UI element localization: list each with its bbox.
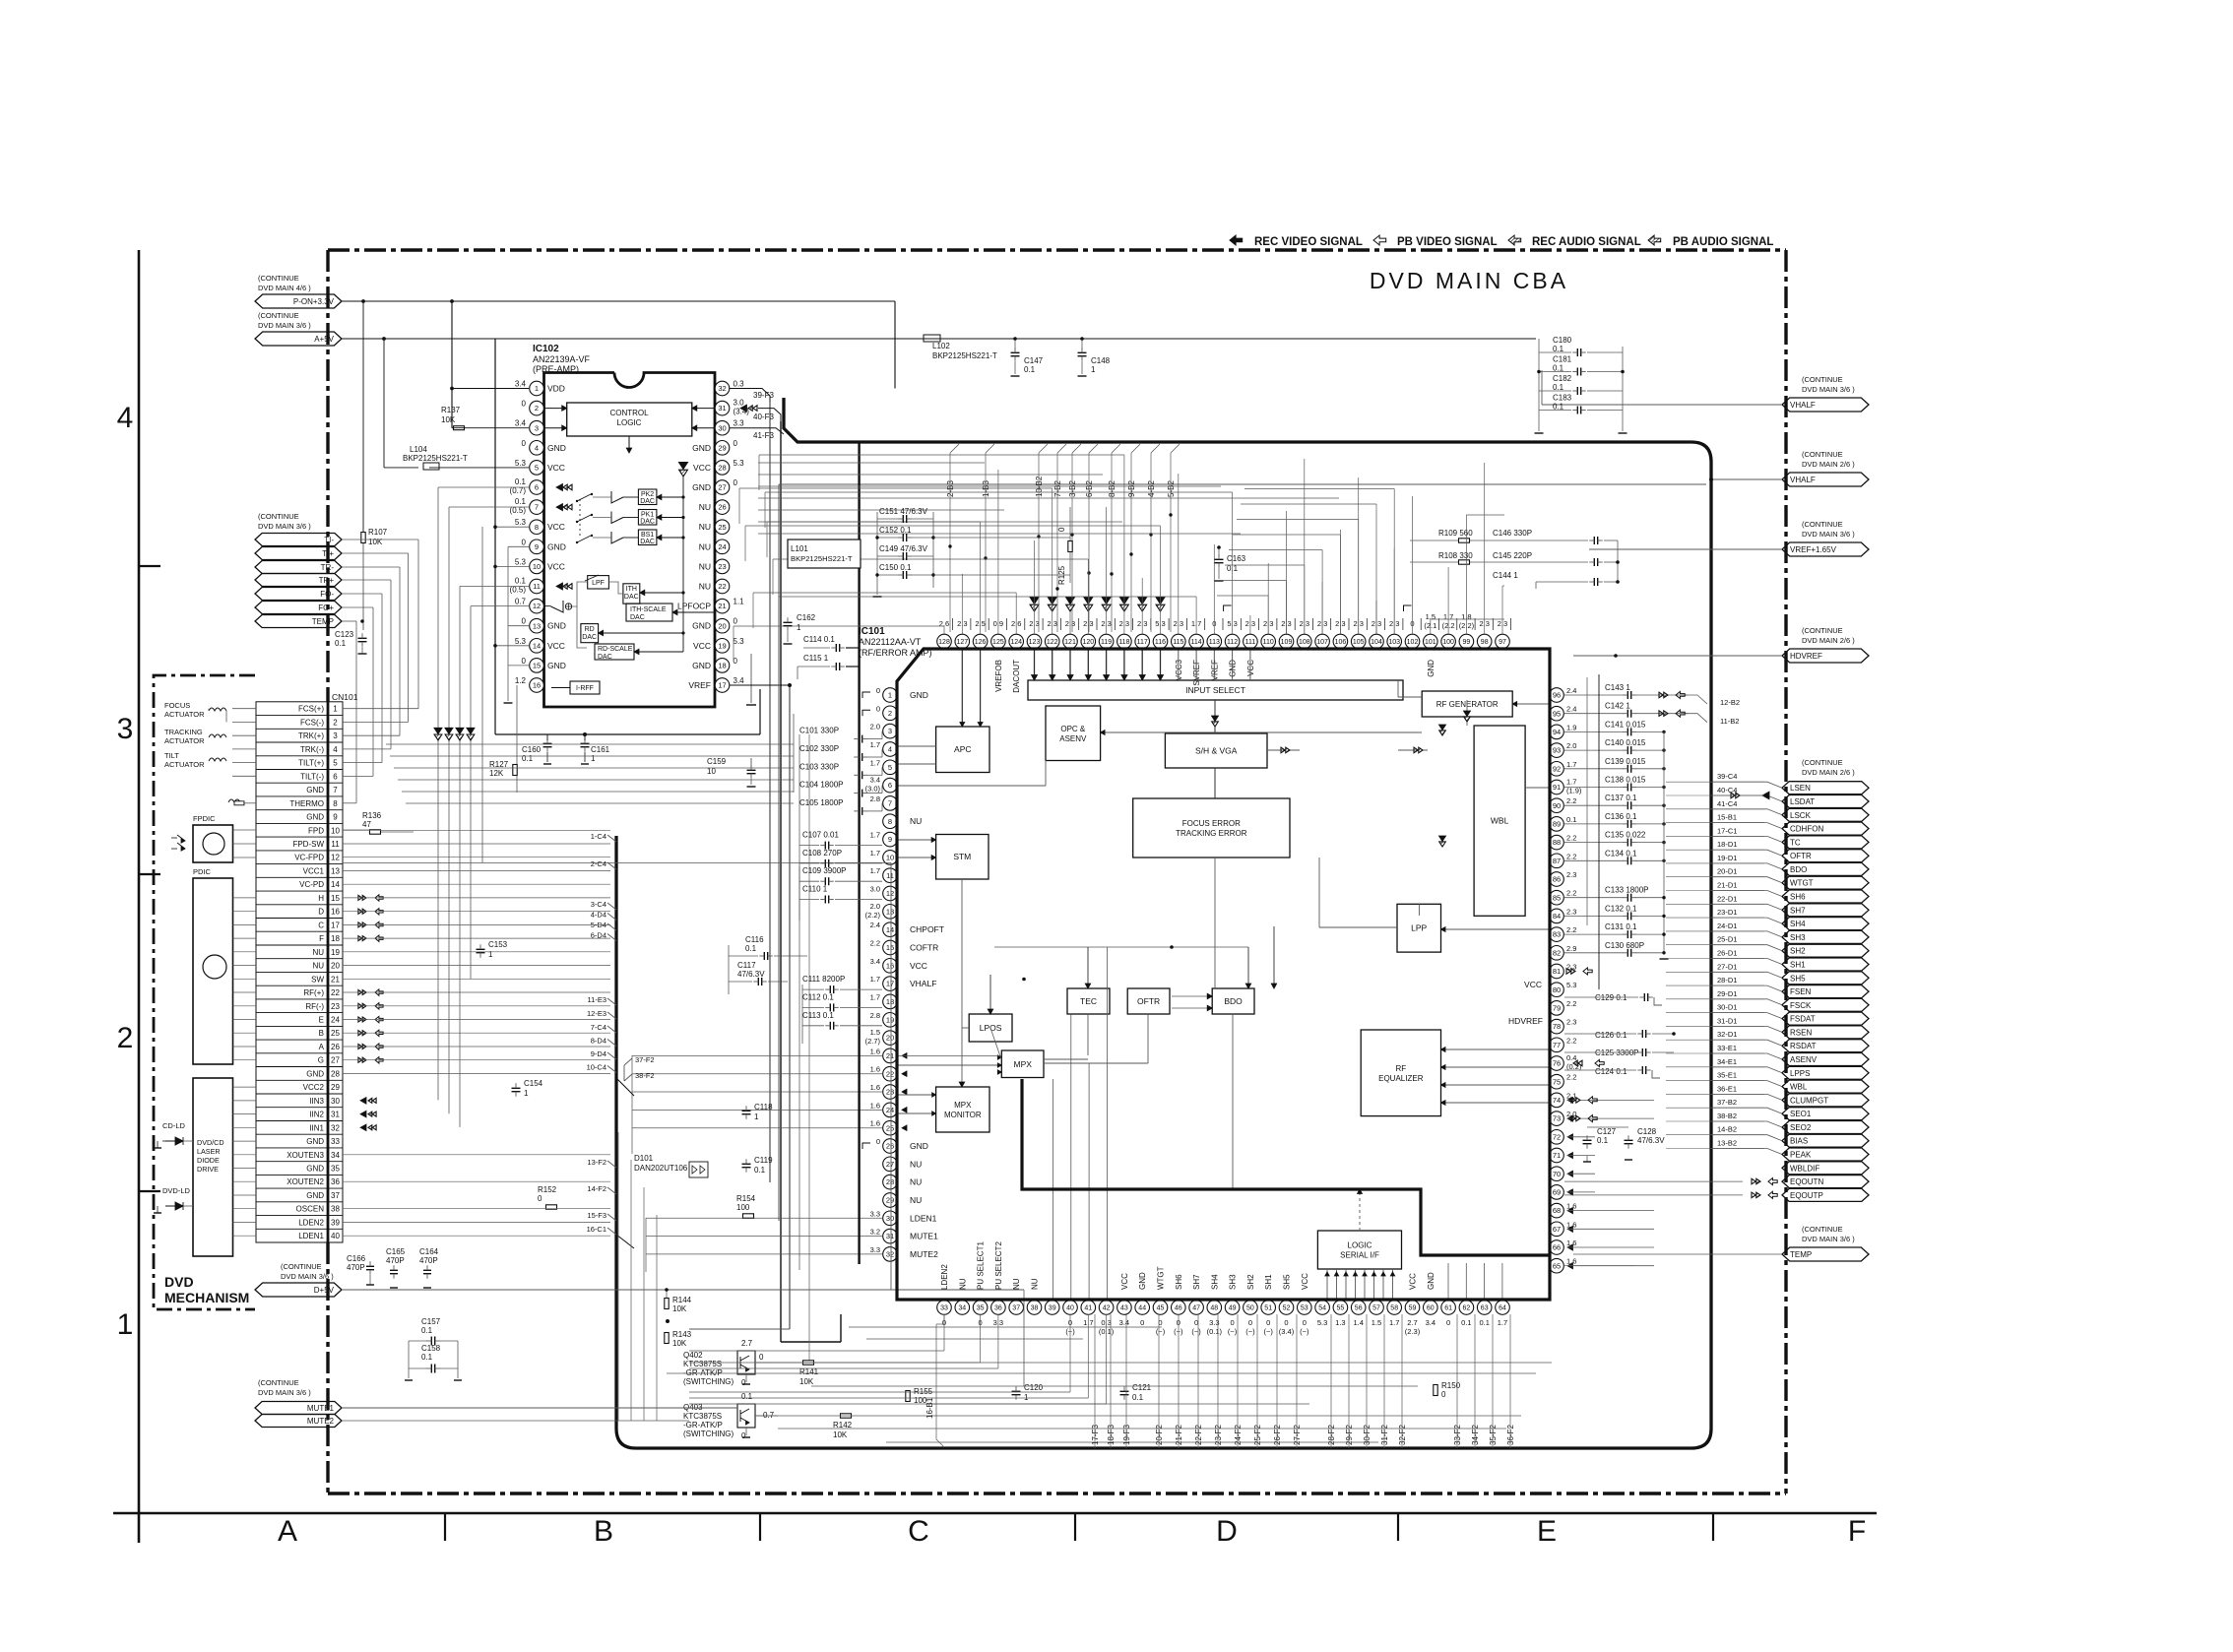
svg-text:26: 26 [331,1043,340,1051]
flag CLUMPGT [1711,1084,1869,1107]
svg-text:EQOUTP: EQOUTP [1790,1191,1823,1200]
svg-text:0.4: 0.4 [1566,1053,1576,1062]
svg-text:32-F2: 32-F2 [1398,1425,1407,1445]
svg-text:35: 35 [331,1165,340,1174]
svg-text:0: 0 [876,686,880,695]
svg-text:TILT: TILT [164,751,179,760]
capacitor C142 [1564,702,1688,718]
svg-text:5-B2: 5-B2 [1167,480,1176,497]
IC102 pin 20 [692,617,737,633]
IC101 pin 19 [870,1011,898,1027]
IC101 pin 46 [1172,1274,1186,1336]
svg-text:22-D1: 22-D1 [1717,894,1737,903]
svg-text:65: 65 [1553,1261,1561,1270]
svg-text:2.2: 2.2 [1566,834,1576,843]
svg-text:RF: RF [1395,1064,1406,1073]
wire D+5V [342,1288,1024,1386]
svg-text:FOCUS ERROR: FOCUS ERROR [1182,819,1241,828]
IC101 TEC block [1067,988,1110,1014]
svg-text:OFTR: OFTR [1790,852,1812,860]
svg-text:C128: C128 [1637,1127,1657,1136]
svg-text:LDEN1: LDEN1 [910,1213,937,1223]
svg-text:GND: GND [547,443,566,453]
svg-text:VCC1: VCC1 [303,867,325,876]
svg-text:39: 39 [1049,1305,1056,1312]
IC102 pin 22 [699,579,730,594]
svg-text:C104 1800P: C104 1800P [799,781,843,790]
svg-text:81: 81 [1553,967,1561,976]
svg-text:37: 37 [331,1191,340,1200]
svg-text:GND: GND [692,661,711,670]
IC101 pin 94 [1550,723,1577,738]
IC101 pin 18 [870,992,898,1008]
svg-text:DAC: DAC [582,634,597,641]
svg-text:DVD MAIN 3/6 ): DVD MAIN 3/6 ) [258,321,311,330]
svg-text:C114 0.1: C114 0.1 [803,635,835,644]
svg-text:0.1: 0.1 [522,754,534,763]
svg-text:C119: C119 [754,1156,773,1165]
svg-text:C110 1: C110 1 [802,885,828,894]
IC101 pin 81 [1550,963,1577,979]
svg-text:26-D1: 26-D1 [1717,949,1737,958]
flag OFTR [1711,840,1869,862]
svg-text:(CONTINUE: (CONTINUE [1802,450,1843,459]
svg-text:C107 0.01: C107 0.01 [802,831,839,840]
svg-text:NU: NU [699,522,711,532]
svg-text:30: 30 [886,1214,894,1223]
IC101 pin 36 [991,1241,1006,1327]
svg-text:103: 103 [1388,639,1400,646]
svg-text:24-D1: 24-D1 [1717,921,1737,930]
svg-text:CN101: CN101 [332,692,358,702]
svg-text:0: 0 [1446,1318,1450,1327]
IC101 pin 54 [1315,1301,1330,1327]
svg-text:31-D1: 31-D1 [1717,1016,1737,1025]
svg-text:MPX: MPX [1013,1059,1032,1069]
svg-text:1.6: 1.6 [870,1047,880,1055]
svg-text:CHPOFT: CHPOFT [910,924,944,934]
IC101 pin 128 [937,618,953,649]
IC101 pin 22 [870,1065,898,1081]
svg-text:C134 0.1: C134 0.1 [1605,849,1637,858]
capacitor C153 [477,940,508,959]
svg-text:12: 12 [886,889,894,898]
svg-text:1: 1 [754,1112,759,1121]
EQOUTN EQOUTP arrows [1731,792,1777,1198]
IC101 pin 79 [1550,999,1577,1015]
svg-text:4: 4 [117,402,134,434]
grid ref 6-D4 [591,931,616,941]
svg-text:101: 101 [1425,639,1436,646]
svg-text:SH4: SH4 [1790,920,1806,928]
svg-text:20: 20 [718,621,726,630]
wire A+5V [342,337,1536,468]
svg-text:CDHFON: CDHFON [1790,825,1823,834]
svg-text:C123: C123 [335,630,354,639]
IC101 pin 62 [1459,1301,1474,1327]
svg-text:P-ON+3.3V: P-ON+3.3V [293,297,335,306]
svg-text:NU: NU [1012,1278,1021,1290]
svg-text:36-F2: 36-F2 [1506,1425,1515,1445]
svg-text:H: H [318,894,324,903]
IC101 pin 80 [1550,981,1577,996]
svg-text:C111 8200P: C111 8200P [802,975,845,984]
svg-text:1.4: 1.4 [1353,1318,1363,1327]
IC101 pin 25 [870,1119,898,1135]
svg-text:C113 0.1: C113 0.1 [802,1011,834,1020]
svg-text:TRK(-): TRK(-) [300,745,324,754]
svg-text:45: 45 [1157,1305,1165,1312]
svg-text:R152: R152 [538,1185,557,1194]
capacitor C144 [1493,540,1674,589]
svg-text:0.1: 0.1 [515,477,527,486]
svg-text:10K: 10K [799,1377,814,1386]
svg-text:4-B2: 4-B2 [1147,480,1156,497]
svg-text:COFTR: COFTR [910,943,938,953]
resistor R136 [343,811,414,834]
IC102 pin 27 [692,478,737,494]
svg-text:C112 0.1: C112 0.1 [802,992,834,1001]
IC102 pin6/7/11 arrows [552,388,554,390]
svg-text:12K: 12K [489,769,504,778]
svg-text:TR-: TR- [321,563,335,572]
svg-text:26: 26 [886,1142,894,1151]
svg-text:18-D1: 18-D1 [1717,840,1737,849]
svg-text:C117: C117 [737,961,756,970]
IC101 pin 56 [1351,1301,1366,1327]
capacitor ladder C107-C110 [799,831,882,850]
capacitor C147 [1011,339,1044,376]
svg-text:TEMP: TEMP [312,617,334,626]
svg-text:23-D1: 23-D1 [1717,908,1737,917]
svg-text:1.3: 1.3 [1335,1318,1345,1327]
svg-text:22: 22 [886,1069,894,1078]
IC101 pin 26 [862,1137,928,1153]
svg-text:2.4: 2.4 [1566,686,1576,695]
svg-text:0: 0 [1057,527,1066,532]
IC101 pin 71 [1550,1148,1564,1163]
svg-text:SH3: SH3 [1229,1274,1238,1290]
svg-text:40: 40 [331,1232,340,1240]
grid ref 2-C4 [591,859,616,869]
svg-text:RF(-): RF(-) [305,1002,324,1011]
svg-text:Q402: Q402 [683,1351,703,1360]
svg-text:RD: RD [585,626,595,633]
svg-text:BS1: BS1 [641,532,654,539]
IC101 pin 9 [870,831,898,847]
svg-text:0: 0 [1266,1318,1270,1327]
IC101 pin 28 [883,1175,923,1189]
IC101 pin 73 [1550,1110,1577,1125]
svg-text:LSCK: LSCK [1790,811,1812,820]
svg-text:(3.0): (3.0) [865,785,881,794]
svg-text:2.8: 2.8 [870,1011,880,1020]
flag SH3 [1711,921,1869,944]
svg-text:MUTE2: MUTE2 [307,1417,335,1426]
svg-text:2.3: 2.3 [1566,907,1576,916]
svg-text:80: 80 [1553,985,1561,994]
IC101 MPX block [1001,1050,1044,1078]
IC101 pin 102 [1404,605,1422,649]
right flags VHALF VREF HDVREF [1782,375,1869,663]
svg-text:IC101: IC101 [859,626,885,637]
svg-text:E: E [1537,1515,1557,1548]
svg-text:R125: R125 [1057,565,1066,585]
svg-text:DVD MAIN 2/6 ): DVD MAIN 2/6 ) [1802,768,1855,777]
svg-text:GND: GND [1138,1272,1147,1290]
IC102 pin 15 [522,657,566,672]
svg-text:BKP2125HS221-T: BKP2125HS221-T [403,454,468,463]
svg-text:37-B2: 37-B2 [1717,1098,1737,1107]
resistor R142 [833,1414,853,1439]
svg-text:C118: C118 [754,1103,773,1112]
svg-text:DVD MAIN 3/6 ): DVD MAIN 3/6 ) [1802,530,1855,539]
svg-text:C162: C162 [797,613,816,622]
grid ref 12-B2 11-B2 [1659,691,1740,726]
flag SH4 [1711,908,1869,930]
capacitor ladder C133 C132 C131 C130 [1564,886,1666,902]
IC101 pin 72 [1550,1130,1564,1145]
svg-text:10K: 10K [672,1304,687,1313]
svg-text:2.3: 2.3 [1566,1018,1576,1027]
svg-text:FCS(-): FCS(-) [300,718,324,727]
IC101 pin 43 [1117,1273,1132,1327]
svg-text:TRACKING ERROR: TRACKING ERROR [1176,829,1247,838]
svg-text:30-D1: 30-D1 [1717,1003,1737,1012]
svg-text:VCC: VCC [1524,980,1542,989]
resistor R107 [361,299,388,630]
right pin arrows 65-74 [1566,968,1654,1269]
svg-text:71: 71 [1553,1151,1561,1160]
svg-text:PDIC: PDIC [193,867,212,876]
svg-text:MUTE1: MUTE1 [307,1404,335,1413]
svg-text:34: 34 [331,1151,340,1160]
flag FSCK [1711,989,1869,1012]
svg-text:NU: NU [910,1195,922,1205]
svg-text:C163: C163 [1227,554,1246,563]
svg-text:0.7: 0.7 [763,1411,775,1420]
IC101 pin 16 [870,957,927,973]
IC102 pin 29 [692,439,737,455]
svg-text:DAN202UT106: DAN202UT106 [634,1164,688,1173]
IC102 pin 3 [515,419,544,435]
svg-text:L102: L102 [932,342,950,350]
svg-text:1-C4: 1-C4 [591,832,606,841]
svg-text:(~): (~) [1228,1327,1238,1336]
svg-text:C142 1: C142 1 [1605,702,1630,711]
left signal flags TI TR FO TEMP [255,512,342,628]
tilt actuator [164,751,256,776]
IC101 pin 21 [870,1047,898,1062]
svg-text:IIN2: IIN2 [309,1111,324,1119]
svg-text:DVD/CD: DVD/CD [197,1138,224,1147]
svg-text:0.1: 0.1 [745,944,757,953]
flag BDO [1711,854,1869,876]
svg-text:0: 0 [522,400,527,409]
svg-text:TRACKING: TRACKING [164,728,203,736]
svg-text:0.1: 0.1 [515,577,527,586]
svg-text:70: 70 [1553,1170,1561,1178]
svg-text:57: 57 [1372,1305,1380,1312]
svg-text:3.3: 3.3 [870,1209,880,1218]
svg-text:24: 24 [718,542,726,551]
IC101 OFTR block [1127,988,1170,1014]
svg-text:54: 54 [1318,1305,1326,1312]
capacitor C148 [1078,339,1111,376]
IC101 pin 39 [1045,1301,1059,1315]
svg-text:NU: NU [1031,1278,1040,1290]
wire MUTE1 MUTE2 [342,1408,737,1421]
IC101 pin 66 [1550,1239,1577,1254]
svg-text:(CONTINUE: (CONTINUE [1802,375,1843,384]
svg-text:FPD-SW: FPD-SW [292,840,324,849]
svg-text:SH6: SH6 [1790,893,1806,902]
svg-text:C103 330P: C103 330P [799,762,839,771]
hatched arrows under IC102 [434,728,475,740]
flag WBLDIF [1782,1162,1869,1175]
IC101 pin 108 [1298,618,1313,649]
svg-text:11-B2: 11-B2 [1720,717,1739,726]
svg-text:C153: C153 [488,940,508,949]
svg-text:(CONTINUE: (CONTINUE [281,1262,322,1271]
IC101 pin 99 [1459,612,1475,649]
svg-text:R154: R154 [736,1194,756,1203]
legend PB AUDIO SIGNAL [1648,235,1773,248]
svg-text:VREFOB: VREFOB [994,660,1003,692]
svg-text:83: 83 [1553,930,1561,939]
svg-text:1: 1 [1024,1393,1029,1402]
svg-text:VCC: VCC [910,961,927,971]
svg-text:20: 20 [886,1034,894,1043]
svg-text:SH1: SH1 [1264,1274,1273,1290]
svg-text:IIN3: IIN3 [309,1097,324,1106]
svg-text:2: 2 [333,718,338,727]
svg-text:NU: NU [910,1159,922,1169]
svg-text:39: 39 [331,1218,340,1227]
svg-text:102: 102 [1407,639,1419,646]
capacitor ladder C111 C112 C113 [802,975,882,993]
svg-text:0.1: 0.1 [1566,815,1576,824]
svg-text:C147: C147 [1024,356,1044,365]
svg-text:C109 3900P: C109 3900P [802,866,846,875]
IC101 pin 126 [973,618,989,649]
svg-text:5.3: 5.3 [734,637,745,646]
svg-text:DVD MAIN 2/6 ): DVD MAIN 2/6 ) [1802,460,1855,469]
svg-text:9: 9 [333,813,338,822]
svg-text:0: 0 [876,1137,880,1146]
svg-text:56: 56 [1355,1305,1363,1312]
IC101 pin 125 [991,618,1007,692]
IC101 pin 5 [870,758,898,774]
svg-text:F: F [1848,1515,1866,1548]
IC101 BDO block [1212,988,1254,1014]
IC101 pin 7 [870,794,898,810]
IC101 pin 41 [1081,1301,1096,1327]
svg-text:SH4: SH4 [1210,1274,1219,1290]
svg-text:ACTUATOR: ACTUATOR [164,736,205,745]
svg-text:3.4: 3.4 [734,676,745,685]
svg-text:13: 13 [533,621,541,630]
capacitor C134 [1564,849,1666,864]
IC101 pin 10 [870,849,898,864]
svg-text:(~): (~) [1245,1327,1255,1336]
svg-text:114: 114 [1191,639,1202,646]
IC101 pin 20 [865,1028,898,1046]
svg-text:DRIVE: DRIVE [197,1165,219,1174]
svg-text:E: E [319,1016,324,1025]
svg-text:0: 0 [759,1353,764,1362]
focus actuator [164,701,256,722]
svg-text:1.7: 1.7 [870,866,880,875]
svg-text:DVD MAIN 3/6 ): DVD MAIN 3/6 ) [258,1388,311,1397]
svg-text:20-D1: 20-D1 [1717,867,1737,876]
svg-text:C102 330P: C102 330P [799,744,839,753]
svg-text:3: 3 [888,727,892,735]
svg-text:35-E1: 35-E1 [1717,1071,1737,1080]
svg-text:8: 8 [888,817,892,826]
svg-text:GND: GND [547,621,566,631]
svg-text:2.7: 2.7 [741,1339,753,1348]
IC101 pin 48 [1207,1274,1223,1336]
IC102 pin 14 [515,637,565,653]
svg-text:13: 13 [331,867,340,876]
IC102 outer enclosure [495,339,792,736]
svg-text:28: 28 [331,1069,340,1078]
svg-text:DAC: DAC [598,654,612,661]
svg-text:WBLDIF: WBLDIF [1790,1164,1819,1173]
capacitors C166 C165 C164 [347,1247,439,1288]
svg-text:TC: TC [1790,838,1801,847]
svg-text:2: 2 [535,404,539,413]
flag SH2 [1711,935,1869,958]
svg-text:29: 29 [886,1196,894,1205]
svg-text:(~): (~) [1156,1327,1166,1336]
svg-text:1.7: 1.7 [870,975,880,984]
svg-text:C101 330P: C101 330P [799,727,839,735]
svg-text:108: 108 [1299,639,1310,646]
IC101 LPOS block [969,1014,1012,1042]
rotated grid refs B2 B3 row [946,444,1180,632]
grid ref 1-C4 [591,832,616,842]
svg-text:(SWITCHING): (SWITCHING) [683,1377,734,1386]
svg-text:2-C4: 2-C4 [591,859,606,868]
svg-text:109: 109 [1281,639,1293,646]
svg-text:OPC &: OPC & [1060,725,1086,733]
svg-text:32-D1: 32-D1 [1717,1030,1737,1039]
svg-text:STM: STM [953,852,971,861]
svg-text:32: 32 [331,1123,340,1132]
svg-text:CD-LD: CD-LD [162,1121,186,1130]
svg-text:C138 0.015: C138 0.015 [1605,776,1646,785]
resistor R154 [736,1194,756,1218]
svg-text:1.6: 1.6 [870,1083,880,1092]
svg-text:DVD: DVD [164,1274,194,1290]
svg-text:41-F3: 41-F3 [753,431,774,440]
svg-text:31: 31 [718,404,726,413]
svg-text:GND: GND [306,1069,324,1078]
svg-text:(CONTINUE: (CONTINUE [1802,758,1843,767]
flag EQOUTN [1782,1175,1869,1188]
svg-text:INPUT SELECT: INPUT SELECT [1185,685,1245,695]
svg-text:73: 73 [1553,1114,1561,1123]
IC101 pin 105 [1351,618,1367,649]
svg-text:69: 69 [1553,1188,1561,1197]
flag RSEN [1711,1016,1869,1039]
svg-text:0.1: 0.1 [1479,1318,1489,1327]
svg-text:0.1: 0.1 [1597,1136,1609,1145]
IC102 pin 12 [515,598,544,613]
svg-text:34: 34 [958,1305,966,1312]
